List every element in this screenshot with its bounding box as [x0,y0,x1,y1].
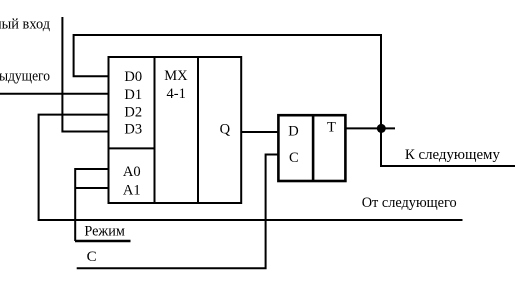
flip-flop U2 body [278,115,345,181]
wire: clock C to U2 C input [77,155,279,269]
MX1 divider between input column and label column [154,57,156,203]
svg-text:D3: D3 [124,122,142,138]
svg-text:C: C [289,150,299,166]
wire: serial input to D3 input [62,17,108,132]
wire: mode branch to A1 input [75,187,108,189]
wire: from previous stage to D1 input [0,93,109,95]
wire: MX1 Q output to U2 D input [241,131,278,133]
MX1 divider between label column and output column [197,57,199,203]
svg-text:ный вход: ный вход [0,17,50,33]
svg-text:D0: D0 [124,69,142,85]
svg-text:D2: D2 [124,105,142,121]
svg-text:D1: D1 [124,87,142,103]
MX1 separator between data inputs and address inputs [109,147,155,149]
multiplexer MX1 body [109,57,242,203]
junction: output node [377,124,386,133]
svg-text:С: С [87,249,97,265]
wire: output node to next stage [381,128,515,166]
wire: mode control to A0 input [75,169,108,241]
svg-text:От следующего: От следующего [362,195,457,211]
wire: from next stage to D2 input [39,115,463,220]
svg-text:ыдущего: ыдущего [0,69,50,85]
svg-text:T: T [327,119,336,135]
svg-text:A1: A1 [123,182,141,198]
svg-text:4-1: 4-1 [167,86,186,102]
svg-text:MX: MX [164,68,188,84]
wire: U2 T output [345,127,395,129]
svg-text:Режим: Режим [84,224,125,240]
wire: feedback from output node to D0 input [74,35,381,128]
svg-text:Q: Q [220,122,231,138]
svg-text:A0: A0 [123,164,141,180]
svg-text:D: D [288,124,298,140]
mode (Режим) terminal line [75,240,131,242]
svg-text:К следующему: К следующему [405,147,500,163]
U2 divider between input column and output column [312,115,315,181]
